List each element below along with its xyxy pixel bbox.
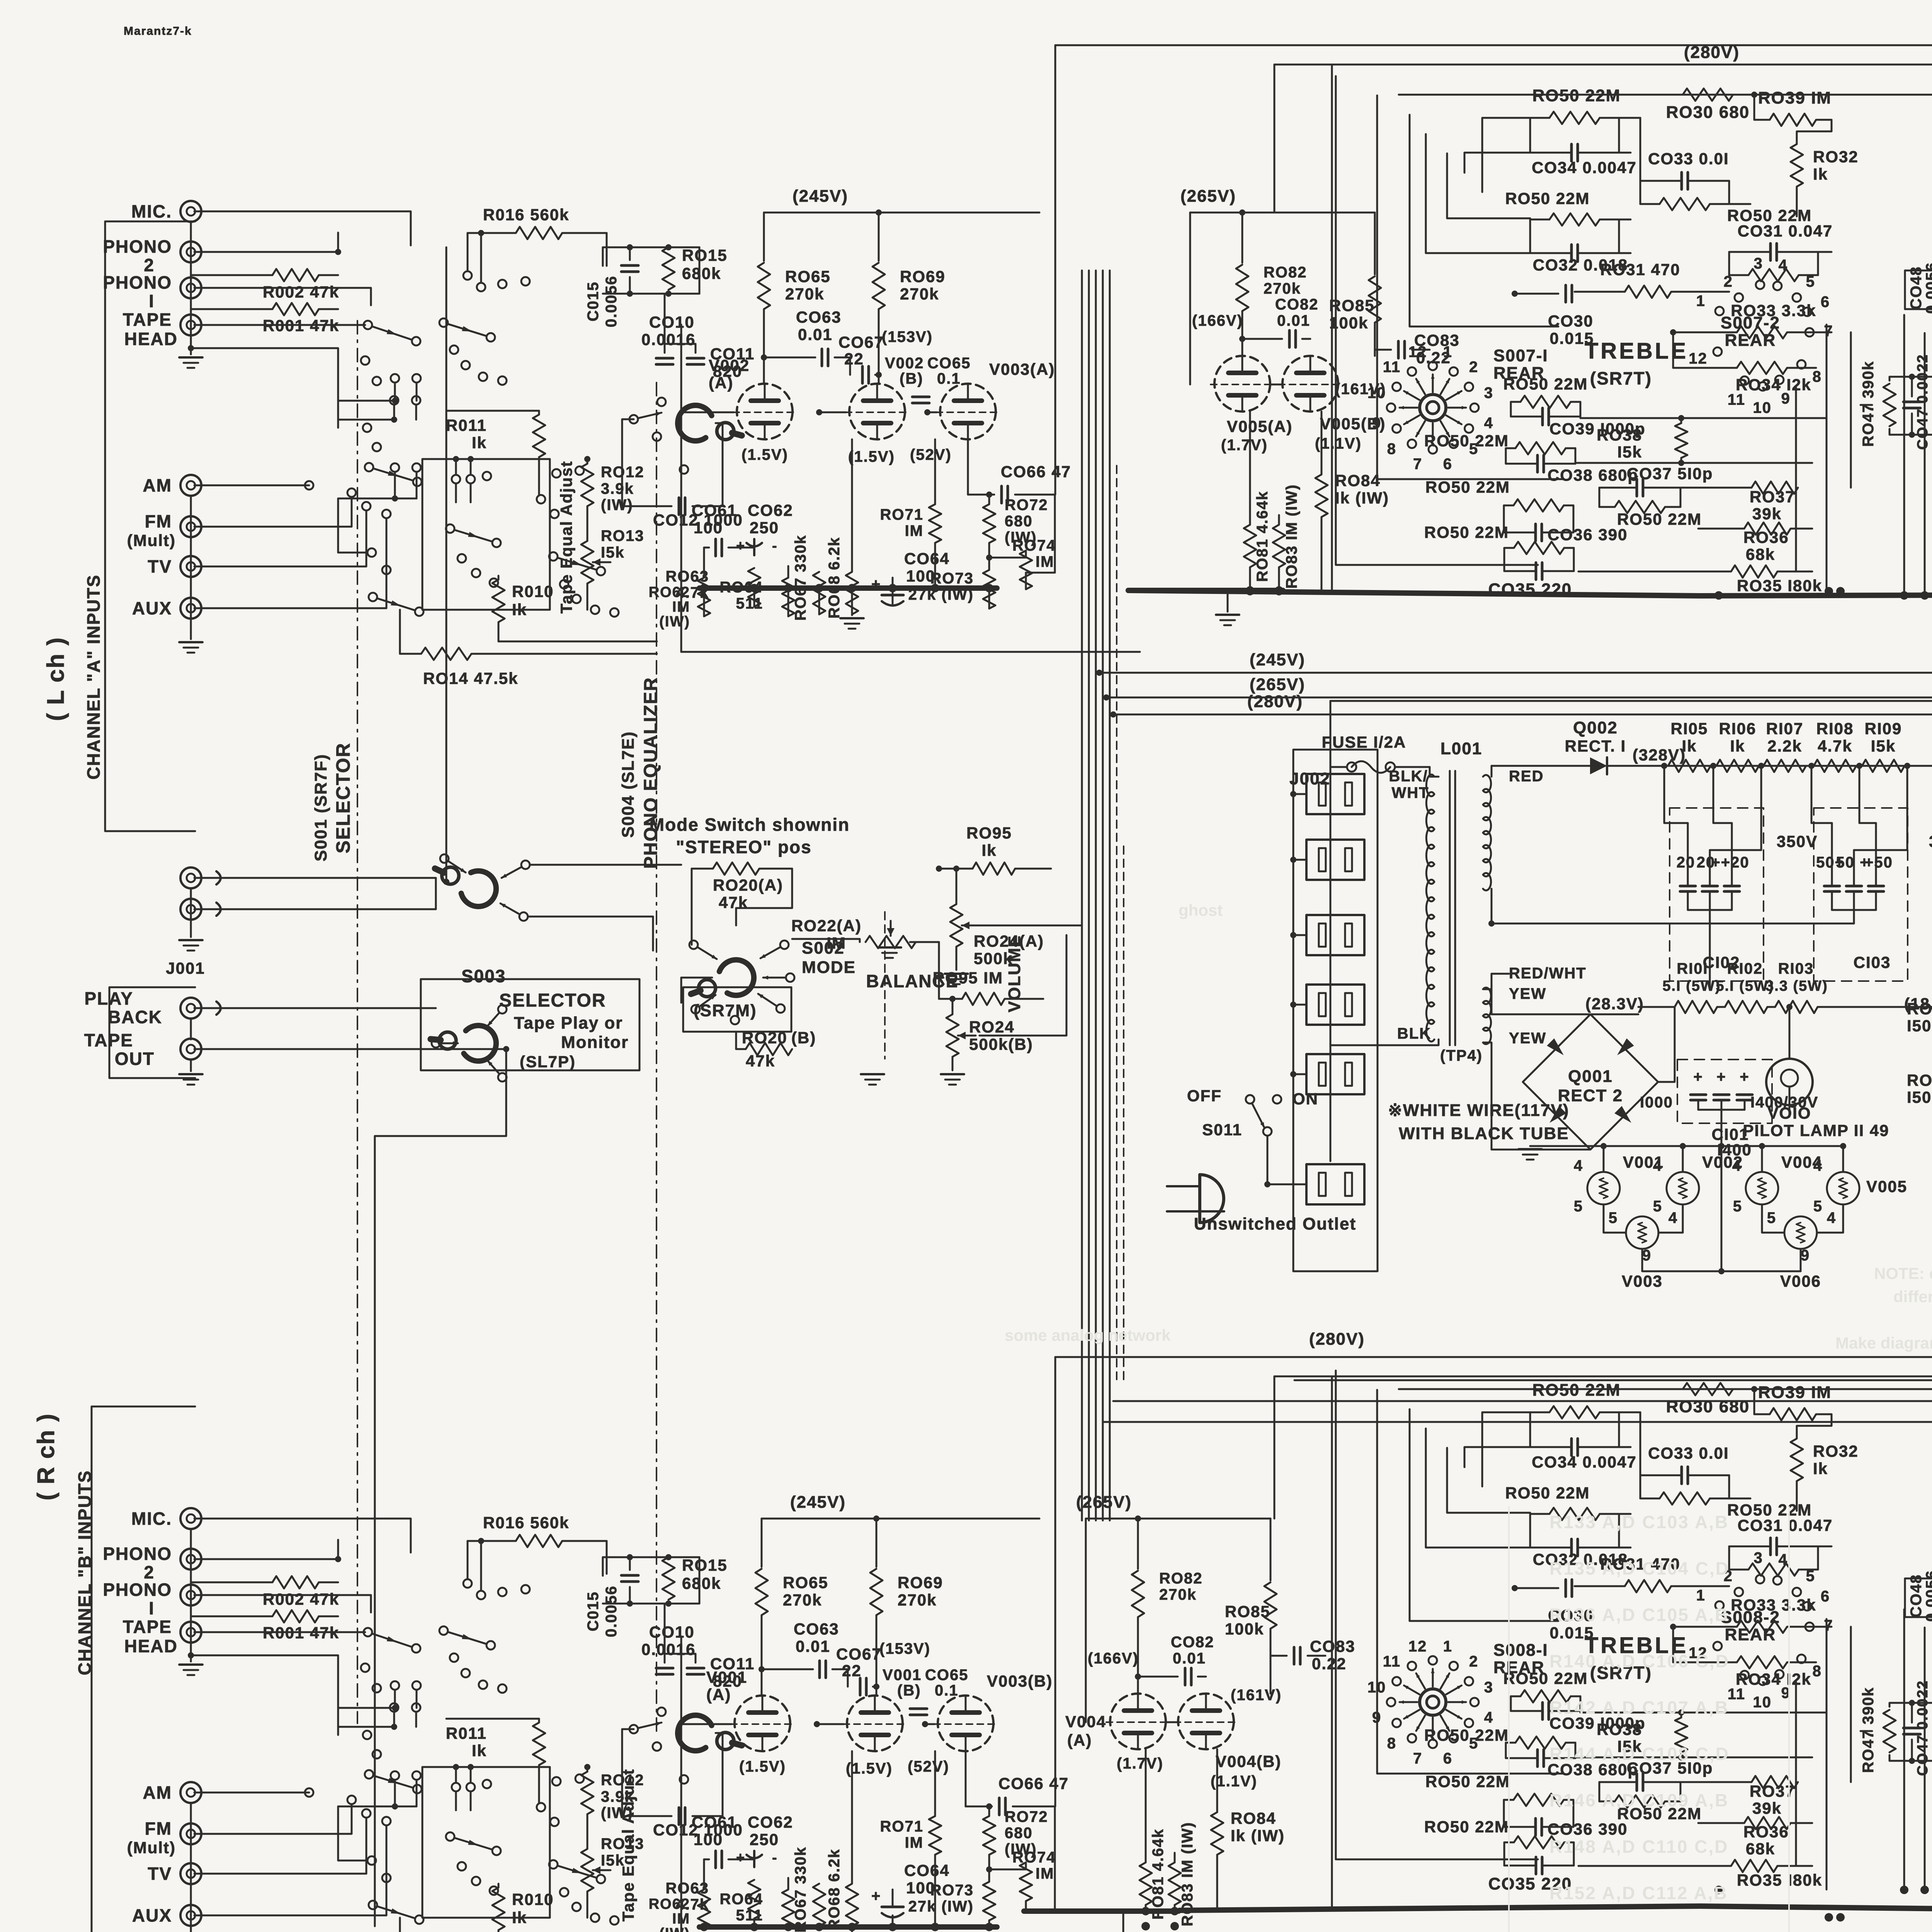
svg-text:511: 511 (736, 1907, 763, 1924)
svg-text:R135 A,D C104 C,D: R135 A,D C104 C,D (1549, 1558, 1730, 1578)
resistor R065 270k (763, 213, 765, 261)
vertical supply bundle (1081, 270, 1083, 1520)
contacts tape-eq top (452, 475, 460, 483)
wires around C015/R015 (603, 1556, 699, 1558)
svg-text:CO48: CO48 (1908, 1574, 1925, 1618)
ladder right nest wires (1619, 1412, 1640, 1413)
svg-text:( R ch ): ( R ch ) (33, 1413, 60, 1500)
resistor R062 1M 1W (698, 1889, 710, 1928)
svg-text:CO66 47: CO66 47 (998, 1774, 1069, 1793)
svg-text:RECT. I: RECT. I (1565, 737, 1626, 755)
resistor R065 270k (761, 1519, 763, 1567)
wire 265V rail (1190, 212, 1375, 214)
wire AUX to selector (201, 519, 386, 608)
svg-text:※WHITE WIRE(117V): ※WHITE WIRE(117V) (1388, 1101, 1569, 1120)
svg-text:RO74: RO74 (1012, 537, 1056, 554)
svg-text:7: 7 (1824, 1617, 1833, 1634)
ground under V005 bus (1122, 1911, 1124, 1932)
svg-text:YEW: YEW (1509, 1030, 1546, 1047)
wire heater row return (1642, 1249, 1801, 1271)
svg-text:R152 A,D C112 A,B: R152 A,D C112 A,B (1549, 1883, 1728, 1903)
svg-text:22: 22 (844, 350, 864, 368)
svg-text:S011: S011 (1202, 1121, 1242, 1139)
svg-text:RO73: RO73 (930, 1882, 974, 1899)
triode V003(A) (940, 384, 996, 439)
bracket CHANNEL A INPUTS (105, 221, 195, 831)
jack TV (180, 556, 201, 577)
svg-text:(1.7V): (1.7V) (1221, 437, 1268, 454)
svg-text:11: 11 (1383, 359, 1401, 376)
wire PHONO1 to selector (201, 1595, 371, 1612)
svg-text:CO62: CO62 (748, 501, 793, 519)
svg-text:(328V): (328V) (1633, 746, 1686, 764)
contacts S001-4 (560, 580, 568, 588)
resistor R074 1M (1020, 551, 1032, 589)
svg-text:5: 5 (1806, 1568, 1815, 1585)
wires around R047 C047 C046 R046 (1889, 1703, 1932, 1713)
svg-text:I50k: I50k (1907, 1017, 1932, 1035)
svg-text:(52V): (52V) (910, 446, 952, 463)
resistor R047 390k (1883, 384, 1896, 426)
wire 245V rail (762, 1518, 1039, 1520)
svg-text:R011: R011 (446, 416, 487, 434)
switch S001-2 arm (365, 1770, 373, 1779)
resistor R072 680 1W (983, 504, 995, 543)
svg-text:S007-2: S007-2 (1721, 313, 1780, 332)
svg-text:0.01: 0.01 (796, 1637, 830, 1655)
wire fuse to transformer (1395, 766, 1430, 768)
ground input B (179, 641, 202, 643)
wire MIC to selector (201, 211, 411, 245)
switch S001-1 arm (364, 321, 372, 329)
resistor R062 1M 1W (698, 578, 710, 616)
capacitor C083 0.22 (1293, 1647, 1296, 1664)
svg-text:OFF: OFF (1187, 1087, 1222, 1105)
wire AM to selector (201, 485, 309, 486)
svg-text:MODE: MODE (802, 958, 856, 977)
capacitor C011 820 (687, 1667, 704, 1670)
svg-text:RO71: RO71 (880, 1818, 924, 1835)
jack PHONO 1 (180, 277, 201, 298)
box selector SL7P (421, 979, 639, 1070)
svg-text:27k (IW): 27k (IW) (908, 1898, 974, 1915)
svg-text:PILOT LAMP II 49: PILOT LAMP II 49 (1743, 1121, 1889, 1139)
svg-text:MIC.: MIC. (131, 201, 172, 221)
svg-text:CO63: CO63 (796, 308, 842, 326)
svg-text:ghost: ghost (1179, 901, 1223, 919)
svg-text:6: 6 (1821, 294, 1830, 311)
svg-text:R002 47k: R002 47k (263, 1590, 339, 1608)
svg-text:RO82: RO82 (1264, 264, 1307, 281)
svg-text:4: 4 (1484, 1709, 1493, 1726)
svg-text:(1.5V): (1.5V) (742, 446, 788, 463)
svg-text:CO37 5I0p: CO37 5I0p (1627, 464, 1713, 483)
switch arm tape-eq (446, 524, 454, 533)
ground under V005 bus (1227, 590, 1229, 612)
svg-text:Ik: Ik (472, 1742, 487, 1760)
svg-text:(28.3V): (28.3V) (1585, 995, 1644, 1013)
svg-text:680: 680 (1005, 513, 1033, 530)
svg-text:MIC.: MIC. (131, 1509, 172, 1529)
potentiometer R013 15k (581, 1849, 594, 1891)
svg-text:(SR7T): (SR7T) (1590, 368, 1652, 388)
svg-text:I5k: I5k (1871, 737, 1896, 755)
switch S001-2 arm (365, 463, 373, 471)
svg-text:L001: L001 (1440, 739, 1482, 758)
svg-text:FM: FM (145, 511, 172, 531)
switch S001-1 arm (364, 1628, 372, 1636)
svg-text:I400/30V: I400/30V (1750, 1094, 1818, 1111)
svg-text:3.9k: 3.9k (601, 480, 634, 497)
svg-text:4: 4 (1813, 1157, 1823, 1174)
heater V004 (1746, 1172, 1778, 1204)
stage outer box (680, 1636, 682, 1932)
svg-text:500k(B): 500k(B) (969, 1035, 1033, 1053)
svg-text:9: 9 (1801, 1247, 1810, 1264)
svg-text:CO31 0.047: CO31 0.047 (1738, 222, 1833, 240)
wire PHONO1 to selector (201, 288, 371, 305)
faint ghost words upper (1005, 901, 1932, 1352)
wire S003 frame lines (435, 878, 437, 909)
svg-text:FUSE I/2A: FUSE I/2A (1322, 733, 1406, 751)
svg-text:RO39 IM: RO39 IM (1758, 1383, 1832, 1402)
svg-text:some analog network: some analog network (1005, 1326, 1171, 1344)
transformer core (1449, 771, 1451, 1045)
svg-text:R142 A,D C107 A,B: R142 A,D C107 A,B (1549, 1697, 1729, 1718)
svg-text:PLAY: PLAY (85, 988, 133, 1009)
svg-text:3: 3 (1484, 384, 1493, 401)
wire mode-out (681, 977, 712, 979)
svg-text:250: 250 (750, 1830, 779, 1849)
dashed balance link (884, 912, 886, 1059)
svg-text:RO50 22M: RO50 22M (1424, 523, 1509, 541)
svg-text:(265V): (265V) (1076, 1493, 1132, 1512)
svg-text:RO36: RO36 (1743, 528, 1789, 546)
svg-text:5.I (5W): 5.I (5W) (1662, 978, 1721, 994)
svg-text:BLK: BLK (1397, 1025, 1431, 1042)
svg-text:(280V): (280V) (1247, 692, 1303, 711)
svg-text:12: 12 (1689, 350, 1708, 367)
resistor R067 330k (813, 1884, 825, 1926)
svg-text:different wiring: different wiring (1893, 1287, 1932, 1306)
resistor R063 4.7k (748, 568, 760, 607)
svg-text:RO47 390k: RO47 390k (1860, 361, 1877, 447)
svg-text:PHONO: PHONO (103, 1580, 172, 1600)
svg-text:VOLUME: VOLUME (1005, 935, 1024, 1012)
svg-text:V001: V001 (706, 1668, 747, 1686)
svg-text:5: 5 (1806, 273, 1815, 290)
wire J001 grounds (190, 888, 192, 937)
switch contact group mid (391, 374, 399, 383)
contact block left (391, 1771, 399, 1780)
svg-text:V004: V004 (1065, 1713, 1106, 1731)
svg-text:3: 3 (1754, 1549, 1763, 1566)
svg-text:(280V): (280V) (1309, 1330, 1365, 1349)
svg-text:RO14 47.5k: RO14 47.5k (423, 669, 519, 687)
svg-text:1: 1 (1696, 293, 1706, 310)
svg-text:RO50 22M: RO50 22M (1424, 1818, 1509, 1836)
jack MIC (180, 201, 201, 222)
svg-text:5: 5 (1767, 1209, 1776, 1226)
wire between triodes (1270, 384, 1282, 386)
svg-text:RO84: RO84 (1231, 1809, 1276, 1827)
svg-text:Tape Equal Adjust: Tape Equal Adjust (557, 461, 575, 614)
svg-text:RO15: RO15 (682, 246, 728, 264)
phono equalizer rotary switch (678, 405, 712, 441)
svg-text:CO31 0.047: CO31 0.047 (1738, 1516, 1833, 1534)
svg-text:RO62: RO62 (649, 584, 690, 600)
svg-text:20: 20 (1677, 854, 1696, 871)
svg-text:V002: V002 (885, 355, 924, 372)
svg-text:SELECTOR: SELECTOR (499, 990, 606, 1011)
svg-text:(B): (B) (900, 370, 923, 387)
treble ladder box (1399, 1388, 1932, 1390)
thick bus under V005 (1128, 588, 1283, 593)
bridge Q001 RECT 2 (1523, 1014, 1658, 1150)
svg-text:IM: IM (1036, 553, 1054, 570)
wire TV to selector (201, 511, 366, 566)
capacitor C015 0.0056 (621, 1574, 638, 1577)
triode V002 (A) (737, 384, 793, 439)
svg-text:RO15: RO15 (682, 1556, 728, 1574)
svg-text:270k: 270k (900, 285, 939, 303)
svg-text:+: + (736, 1850, 745, 1866)
svg-text:3: 3 (1484, 1679, 1493, 1696)
wire 161V node (1374, 350, 1376, 356)
heater V005 (1827, 1172, 1859, 1204)
svg-text:RO24: RO24 (969, 1018, 1015, 1036)
svg-text:S004 (SL7E): S004 (SL7E) (619, 731, 638, 838)
svg-text:RO13: RO13 (601, 527, 645, 544)
svg-text:I000: I000 (1640, 1094, 1673, 1111)
resistor R034 12k (1737, 1656, 1787, 1668)
svg-text:RO36: RO36 (1743, 1823, 1789, 1841)
svg-text:10: 10 (1753, 400, 1772, 417)
resistor R002 47k (190, 262, 192, 275)
triode V005(A) (1214, 356, 1270, 412)
resistor R064 511 (782, 578, 794, 616)
resistor R085 100k (1374, 213, 1376, 274)
svg-text:0.1: 0.1 (935, 1682, 959, 1699)
svg-text:CI01: CI01 (1712, 1125, 1749, 1143)
svg-text:7: 7 (1413, 1750, 1422, 1767)
resistor R012 3.9k 1W (581, 464, 594, 506)
switch arm tape-eq (446, 1832, 454, 1841)
wire PHONO2 to selector (201, 233, 338, 252)
contact block left (391, 463, 399, 472)
svg-text:CO67: CO67 (838, 333, 884, 351)
svg-text:250: 250 (750, 519, 779, 537)
svg-text:Tape Equal Adjust: Tape Equal Adjust (619, 1769, 637, 1922)
svg-text:RO71: RO71 (880, 506, 924, 523)
svg-text:0.0016: 0.0016 (641, 330, 696, 349)
contact field S007-2 REAR (1715, 307, 1724, 315)
capacitor C011 820 (687, 357, 704, 360)
contacts tape-eq top (452, 1783, 460, 1791)
capacitor C012 1000 (678, 1808, 680, 1825)
svg-text:CO34 0.0047: CO34 0.0047 (1532, 158, 1637, 177)
svg-text:RO67 330k: RO67 330k (792, 1847, 809, 1932)
svg-text:C015: C015 (585, 1591, 602, 1631)
thick ground bus channel (699, 1924, 997, 1930)
svg-text:(1.5V): (1.5V) (848, 448, 895, 465)
svg-text:4: 4 (1484, 415, 1493, 432)
wire TAPE HEAD to selector arm (201, 1631, 365, 1633)
svg-text:AUX: AUX (132, 598, 172, 618)
switch contacts below tape head (361, 356, 369, 365)
svg-text:(161V): (161V) (1231, 1687, 1282, 1704)
tone box left edge vertical B (1331, 1376, 1333, 1909)
svg-text:RI0I: RI0I (1677, 960, 1708, 977)
svg-text:RO81 4.64k: RO81 4.64k (1254, 491, 1271, 582)
svg-text:CO61: CO61 (692, 1813, 737, 1831)
resistor R063 4.7k (748, 1880, 760, 1918)
svg-text:(B): (B) (897, 1682, 921, 1699)
svg-text:0.0056: 0.0056 (603, 1585, 620, 1637)
svg-text:(Mult): (Mult) (127, 531, 176, 549)
svg-text:12: 12 (1408, 1638, 1427, 1655)
svg-text:CO62: CO62 (748, 1813, 793, 1831)
svg-text:(Mult): (Mult) (127, 1838, 176, 1857)
jack AM (180, 1782, 201, 1803)
wire heater bus (1530, 1145, 1843, 1147)
wire heater dc line (1638, 1006, 1675, 1008)
svg-text:CO82: CO82 (1275, 296, 1319, 313)
resistor R081 4.64k (1244, 525, 1256, 567)
svg-text:270k: 270k (783, 1591, 822, 1609)
pilot lamp V010 (1766, 1059, 1813, 1105)
resistor R085 100k (1270, 1519, 1272, 1580)
resistor R064 511 (782, 1889, 794, 1928)
jack AM (180, 475, 201, 496)
svg-text:(52V): (52V) (908, 1758, 949, 1775)
resistor R036 68k (1744, 1817, 1791, 1829)
svg-text:TV: TV (148, 556, 172, 577)
svg-text:Marantz7-k: Marantz7-k (124, 25, 192, 37)
jack PHONO 1 (180, 1585, 201, 1605)
svg-text:270k: 270k (1159, 1586, 1197, 1603)
svg-text:I: I (149, 1598, 155, 1618)
svg-text:RO50 22M: RO50 22M (1503, 1669, 1588, 1687)
svg-text:68k: 68k (1746, 1840, 1775, 1858)
svg-text:I: I (149, 291, 155, 311)
outlet socket 4 (1306, 985, 1364, 1025)
capacitor C012 1000 (678, 498, 680, 515)
svg-text:RO37: RO37 (1750, 488, 1795, 506)
svg-text:S008-2: S008-2 (1721, 1608, 1780, 1627)
heater V002 (1667, 1172, 1699, 1204)
svg-text:1: 1 (1443, 1638, 1452, 1655)
capacitor C030 0.015 (1565, 1580, 1567, 1597)
svg-text:Tape Play or: Tape Play or (514, 1014, 623, 1032)
wire S003 frame (446, 881, 447, 883)
svg-text:S003: S003 (461, 966, 506, 986)
svg-text:4: 4 (1653, 1157, 1662, 1174)
svg-text:RO85: RO85 (1225, 1602, 1270, 1621)
ladder left nest wires (1336, 1371, 1538, 1859)
svg-text:39k: 39k (1752, 505, 1782, 523)
svg-text:S007-I: S007-I (1493, 346, 1548, 365)
svg-text:(280V): (280V) (1684, 43, 1740, 62)
resistor R084 1k 1W (1211, 1812, 1223, 1855)
svg-text:IM: IM (1036, 1865, 1054, 1882)
svg-text:RO12: RO12 (601, 464, 645, 481)
resistor R074 1M (1020, 1862, 1032, 1901)
svg-text:11: 11 (1383, 1653, 1401, 1670)
tape equal adjust box (422, 459, 550, 610)
svg-text:680: 680 (1005, 1825, 1033, 1842)
svg-text:+50: +50 (1864, 854, 1893, 871)
dash-dot line S001 selector shaft (357, 321, 358, 1723)
svg-text:(265V): (265V) (1250, 675, 1305, 694)
wire J001 to S003 (201, 877, 436, 879)
jack TAPE OUT (180, 1039, 201, 1060)
resistor R035 180k (1731, 565, 1777, 578)
svg-text:RO72: RO72 (1005, 1808, 1048, 1825)
triode V001 (B) (847, 1696, 903, 1751)
capacitor C015 0.0056 (621, 264, 638, 267)
svg-text:V005: V005 (1866, 1177, 1907, 1196)
svg-text:RI06: RI06 (1719, 719, 1757, 738)
ground input A (179, 356, 202, 359)
svg-text:RED/WHT: RED/WHT (1509, 965, 1587, 982)
svg-text:V005(A): V005(A) (1227, 417, 1293, 435)
capacitor C083 0.22 (1397, 341, 1400, 358)
triode V005(B) (1282, 356, 1338, 412)
jack FM (180, 516, 201, 537)
jack FM (180, 1823, 201, 1844)
svg-text:350V: 350V (1777, 832, 1818, 850)
wire playback jacks (216, 1002, 221, 1015)
svg-text:CO63: CO63 (794, 1620, 839, 1638)
svg-text:R016 560k: R016 560k (483, 1514, 570, 1532)
phono equalizer rotary switch (678, 1715, 712, 1751)
wire AUX to selector (201, 1826, 386, 1915)
svg-text:5: 5 (1733, 1198, 1742, 1215)
svg-text:0.1: 0.1 (937, 370, 961, 387)
svg-text:68k: 68k (1746, 545, 1775, 563)
contact columns to bus (1795, 1681, 1797, 1866)
svg-text:RO82: RO82 (1159, 1570, 1203, 1587)
svg-text:PHONO: PHONO (103, 272, 172, 293)
wire 265V rail (1086, 1518, 1270, 1520)
svg-text:RO65: RO65 (783, 1573, 828, 1592)
resistor R067 330k (813, 572, 825, 614)
wires around R047 C047 C046 R046 (1889, 377, 1932, 386)
svg-text:(IW): (IW) (601, 497, 633, 514)
wire volume wiper to bundle (980, 925, 1082, 927)
svg-text:RO38: RO38 (1597, 426, 1642, 444)
svg-text:Unswitched Outlet: Unswitched Outlet (1194, 1214, 1356, 1233)
svg-text:RO81 4.64k: RO81 4.64k (1150, 1828, 1167, 1920)
svg-text:CO36 390: CO36 390 (1548, 526, 1628, 544)
thick bus under V005 (1024, 1908, 1179, 1914)
svg-text:CHANNEL "A" INPUTS: CHANNEL "A" INPUTS (83, 574, 104, 779)
svg-text:RO69: RO69 (900, 267, 946, 286)
svg-text:S008-I: S008-I (1493, 1641, 1548, 1660)
box SR7M (683, 987, 791, 1032)
inner loop wire bottom mirror (1274, 1376, 1932, 1378)
svg-text:(IW): (IW) (659, 1925, 690, 1932)
dash-dot line S004 phono equalizer shaft (656, 383, 657, 1731)
svg-text:V002: V002 (709, 356, 750, 374)
svg-text:(245V): (245V) (790, 1493, 846, 1512)
svg-text:SELECTOR: SELECTOR (332, 742, 354, 853)
svg-text:(1.5V): (1.5V) (739, 1758, 786, 1775)
svg-text:+: + (871, 1888, 881, 1905)
svg-text:OUT: OUT (115, 1049, 155, 1069)
wire FM to selector (201, 498, 352, 527)
